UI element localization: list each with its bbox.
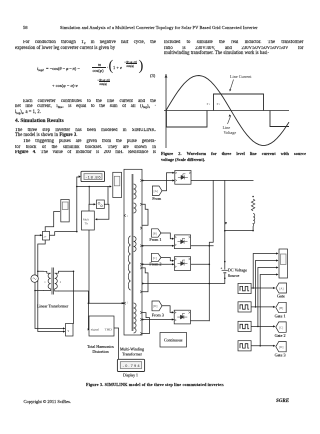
- wire: pulse generator 2 to Goto Gate 1: [251, 306, 274, 308]
- svg-text:1: 1: [44, 281, 46, 284]
- arrow to line voltage: [228, 116, 231, 125]
- svg-text:2: 2: [219, 104, 220, 106]
- figure 2 caption: [161, 151, 306, 157]
- svg-text:[C]: [C]: [279, 325, 283, 329]
- thyristor T3: [174, 257, 190, 271]
- wire: tap to scope S1: [38, 212, 64, 332]
- svg-text:Transformer: Transformer: [122, 351, 143, 356]
- multimeter block: [82, 211, 95, 230]
- svg-text:From 1: From 1: [149, 237, 161, 242]
- section heading: [15, 118, 64, 124]
- series inductor of load: [253, 214, 255, 227]
- vertical axis: [165, 74, 167, 149]
- svg-text:Gate: Gate: [277, 294, 285, 299]
- right column paragraph: [164, 40, 304, 46]
- wire: T2 cathode to right vertical: [191, 245, 214, 247]
- From tag D: [152, 301, 162, 311]
- From tag A: [152, 186, 162, 196]
- svg-text:[C]: [C]: [153, 256, 157, 260]
- wire: AC source branch to current measurement: [35, 235, 64, 328]
- thyristor T2: [174, 235, 190, 249]
- display block (top left): [81, 171, 105, 181]
- three level line current waveform: [166, 94, 289, 127]
- wire: From tag D to T4 gate: [162, 306, 172, 313]
- wire: tap to scope S2: [77, 187, 111, 205]
- wire: pulse generator 3 to Goto Gate 2: [251, 325, 274, 327]
- Goto tag A (Gate): [276, 283, 287, 293]
- multiwinding transformer block: [124, 169, 142, 335]
- scope S2 block: [113, 172, 122, 197]
- series resistor of load: [251, 199, 254, 211]
- svg-text:[A]: [A]: [279, 286, 283, 290]
- FIGURE 3 SVG placeholder: [0, 164, 320, 380]
- svg-text:2: 2: [60, 281, 62, 284]
- thyristor T4: [174, 310, 190, 324]
- wire: THD output to Display 1: [114, 328, 119, 366]
- svg-text:[D]: [D]: [153, 304, 157, 308]
- wire arrowheads: [40, 172, 279, 367]
- AC voltage source: [31, 275, 38, 282]
- svg-text:[B]: [B]: [153, 231, 157, 235]
- product block: [97, 200, 105, 209]
- pulse generator 1: [238, 283, 251, 293]
- wire: mwt winding series link 1: [142, 204, 148, 225]
- svg-text:Gate 2: Gate 2: [275, 333, 286, 338]
- wire: T3 cathode to right vertical: [191, 263, 210, 265]
- svg-text:[A]: [A]: [154, 189, 158, 193]
- wire: linear transformer secondary bottom to mwt left port: [35, 290, 43, 292]
- From tag C: [152, 253, 162, 261]
- svg-text:[D]: [D]: [279, 345, 283, 349]
- wire: linear transformer right bottom to mwt winding port: [59, 291, 123, 303]
- svg-text:signal: signal: [91, 327, 99, 331]
- svg-text:From 2: From 2: [149, 262, 161, 267]
- footer: [24, 399, 72, 404]
- wire: scope feed 1: [253, 254, 277, 289]
- header page number: [23, 25, 28, 30]
- wire: From tag A to T1 gate: [162, 173, 173, 191]
- svg-text:Th: Th: [85, 222, 89, 226]
- wire: multiwinding transformer port1 to thyristor T1 anode: [142, 180, 174, 182]
- wire: linear transformer right top to measurement rail: [59, 271, 74, 323]
- linear transformer: [43, 268, 58, 295]
- wire: mwt winding series link 2: [142, 268, 148, 292]
- wire: product block input: [89, 204, 95, 303]
- pulse generator 2: [238, 302, 251, 312]
- svg-text:Voltage: Voltage: [224, 130, 237, 135]
- wire: T1 cathode to load node, right rail: [191, 180, 253, 182]
- svg-text:THD: THD: [105, 327, 113, 331]
- line voltage sine wave: [166, 76, 289, 146]
- FIGURE 2 SVG: [160, 68, 312, 148]
- wire: branch down at x=213 to T2 cathode row: [209, 181, 213, 321]
- wire: mwt port4 to thyristor T4 anode: [142, 319, 173, 321]
- wire: current measurement to display: [50, 177, 80, 235]
- left column paragraph 1: [15, 40, 156, 46]
- wire: mwt port3 to thyristor T3 anode: [142, 263, 174, 265]
- equation (3): [37, 66, 44, 72]
- wire: scope feed 4: [260, 275, 277, 346]
- figure 3 caption: [86, 382, 224, 387]
- left column paragraph 3: [15, 128, 156, 134]
- pulse generator 3: [238, 321, 251, 331]
- svg-text:From: From: [152, 196, 162, 201]
- svg-text:Gate 1: Gate 1: [275, 314, 286, 319]
- svg-text:1: 1: [209, 104, 210, 106]
- svg-text:Source: Source: [228, 273, 240, 278]
- axis arrowhead: [165, 74, 168, 78]
- left column paragraph 2: [15, 99, 156, 105]
- wire: T4 cathode to right vertical: [191, 320, 209, 322]
- svg-text:DC Voltage: DC Voltage: [228, 268, 247, 273]
- wire: scope feed 2: [256, 261, 278, 307]
- Goto tag C (Gate 2): [276, 322, 286, 332]
- svg-text:Line Current: Line Current: [230, 74, 252, 79]
- wire: From tag B to T2 gate: [161, 233, 172, 239]
- wire: DC source branch vertical: [142, 181, 225, 284]
- Goto tag B (Gate 1): [276, 302, 286, 312]
- scope S1 block: [61, 200, 69, 222]
- header title: [60, 25, 258, 30]
- DC voltage source battery: [221, 267, 228, 272]
- scope block: [279, 249, 288, 278]
- svg-text:From 3: From 3: [152, 313, 164, 318]
- horizontal axis: [164, 110, 289, 112]
- wire: mwt winding series link 3: [142, 313, 150, 334]
- svg-text:[B]: [B]: [279, 306, 283, 310]
- wire: scope S2 feed vertical: [107, 187, 109, 205]
- voltage measurement block: [66, 324, 74, 337]
- svg-text:-18.86: -18.86: [86, 174, 102, 179]
- wire: pulse generator 4 to Goto Gate 3: [251, 345, 274, 347]
- svg-text:Distortion: Distortion: [92, 349, 108, 354]
- current measurement block: [43, 231, 50, 240]
- arrow to line current: [230, 80, 234, 92]
- wire: pulse generator 1 to Goto Gate: [251, 287, 274, 289]
- THD measurement block: [89, 316, 114, 336]
- wire: measurement vertical into THD block: [87, 303, 89, 329]
- svg-text:Linear Transformer: Linear Transformer: [37, 304, 69, 309]
- From tag B: [152, 229, 162, 237]
- pulse generator 4: [238, 341, 251, 351]
- svg-text:-0.794: -0.794: [123, 363, 141, 368]
- svg-text:Gate 3: Gate 3: [275, 353, 286, 358]
- wire: From tag C to T3 gate: [161, 258, 172, 261]
- wire: scope feed 3: [258, 268, 277, 327]
- wire: RL load branch bottom link: [225, 227, 253, 231]
- Display 1 block: [117, 359, 144, 371]
- wire: product block output loop to multimeter: [96, 204, 109, 219]
- wire: mwt port2 to thyristor T2 anode: [142, 245, 174, 247]
- Goto tag D (Gate 3): [276, 342, 286, 352]
- powergui Continuous block: [160, 333, 187, 348]
- svg-text:Display 1: Display 1: [123, 374, 138, 378]
- svg-text:i+: i+: [44, 235, 47, 239]
- svg-text:Continuous: Continuous: [164, 337, 183, 342]
- thyristor T1: [175, 171, 191, 185]
